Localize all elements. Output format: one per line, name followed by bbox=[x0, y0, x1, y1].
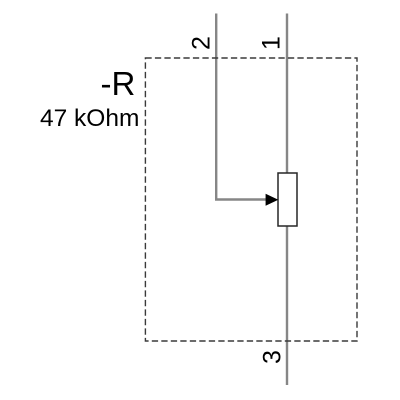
svg-text:-R: -R bbox=[101, 65, 136, 102]
svg-text:1: 1 bbox=[257, 36, 285, 50]
dashed enclosure box bbox=[145, 58, 357, 341]
wire pin 1 to pin 3 (vertical through potentiometer) bbox=[286, 14, 288, 386]
svg-text:3: 3 bbox=[259, 350, 287, 364]
potentiometer R body bbox=[278, 173, 297, 226]
svg-text:47 kOhm: 47 kOhm bbox=[40, 105, 139, 132]
wire wiper horizontal segment bbox=[215, 198, 267, 200]
wiper arrow bbox=[266, 194, 279, 206]
wire pin 2 vertical segment bbox=[215, 14, 217, 200]
svg-text:2: 2 bbox=[187, 36, 215, 50]
